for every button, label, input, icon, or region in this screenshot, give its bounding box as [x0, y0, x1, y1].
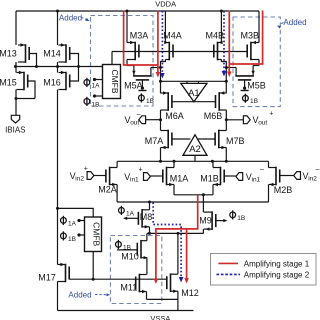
svg-text:1A: 1A: [126, 210, 135, 217]
svg-text:1A: 1A: [68, 220, 77, 227]
svg-text:Added: Added: [283, 18, 306, 27]
svg-text:+: +: [139, 167, 143, 174]
svg-text:CMFB: CMFB: [91, 222, 101, 246]
svg-text:in2: in2: [308, 176, 317, 183]
svg-text:IBIAS: IBIAS: [5, 126, 25, 135]
svg-text:M1A: M1A: [170, 173, 189, 183]
svg-text:Added: Added: [68, 291, 91, 300]
svg-text:M15: M15: [0, 77, 17, 87]
svg-text:M10: M10: [121, 251, 139, 261]
svg-text:CMFB: CMFB: [110, 69, 120, 93]
svg-text:1B: 1B: [237, 215, 245, 222]
svg-text:M5B: M5B: [247, 81, 266, 91]
svg-text:in1: in1: [130, 177, 139, 184]
svg-text:M4A: M4A: [163, 30, 182, 40]
svg-text:M2A: M2A: [98, 184, 117, 194]
svg-text:Amplifying stage 1: Amplifying stage 1: [244, 260, 310, 269]
svg-text:M7A: M7A: [145, 136, 164, 146]
svg-text:A1: A1: [188, 88, 200, 99]
svg-text:M16: M16: [43, 77, 61, 87]
svg-text:1B: 1B: [68, 236, 76, 243]
svg-text:M2B: M2B: [274, 185, 293, 195]
svg-text:M17: M17: [38, 273, 56, 283]
svg-text:M6A: M6A: [165, 111, 184, 121]
svg-text:M5A: M5A: [124, 80, 143, 90]
svg-text:M3B: M3B: [241, 30, 260, 40]
svg-text:Added: Added: [59, 13, 82, 22]
svg-text:1B: 1B: [123, 244, 131, 251]
svg-text:M6B: M6B: [204, 111, 223, 121]
svg-text:1B: 1B: [92, 101, 100, 108]
svg-text:M7B: M7B: [226, 136, 245, 146]
svg-text:M13: M13: [0, 49, 17, 59]
svg-text:M12: M12: [181, 288, 199, 298]
svg-text:out: out: [130, 120, 139, 127]
svg-text:1B: 1B: [250, 98, 258, 105]
svg-text:M14: M14: [43, 49, 61, 59]
svg-text:1B: 1B: [146, 98, 154, 105]
svg-text:VDDA: VDDA: [155, 0, 176, 9]
svg-text:M9: M9: [199, 215, 212, 225]
svg-text:M3A: M3A: [130, 30, 149, 40]
svg-text:–: –: [137, 111, 141, 118]
svg-text:1A: 1A: [92, 82, 101, 89]
svg-text:Amplifying stage 2: Amplifying stage 2: [244, 271, 310, 280]
svg-text:out: out: [258, 120, 267, 127]
svg-text:M11: M11: [120, 283, 137, 293]
svg-text:M1B: M1B: [200, 173, 219, 183]
svg-text:in1: in1: [252, 177, 261, 184]
svg-text:VSSA: VSSA: [150, 314, 170, 320]
svg-text:in2: in2: [75, 176, 84, 183]
svg-text:+: +: [269, 110, 273, 117]
svg-text:M8: M8: [140, 212, 153, 222]
svg-text:–: –: [260, 167, 264, 174]
svg-text:–: –: [316, 166, 320, 173]
svg-text:+: +: [84, 166, 88, 173]
svg-text:A2: A2: [189, 144, 201, 155]
